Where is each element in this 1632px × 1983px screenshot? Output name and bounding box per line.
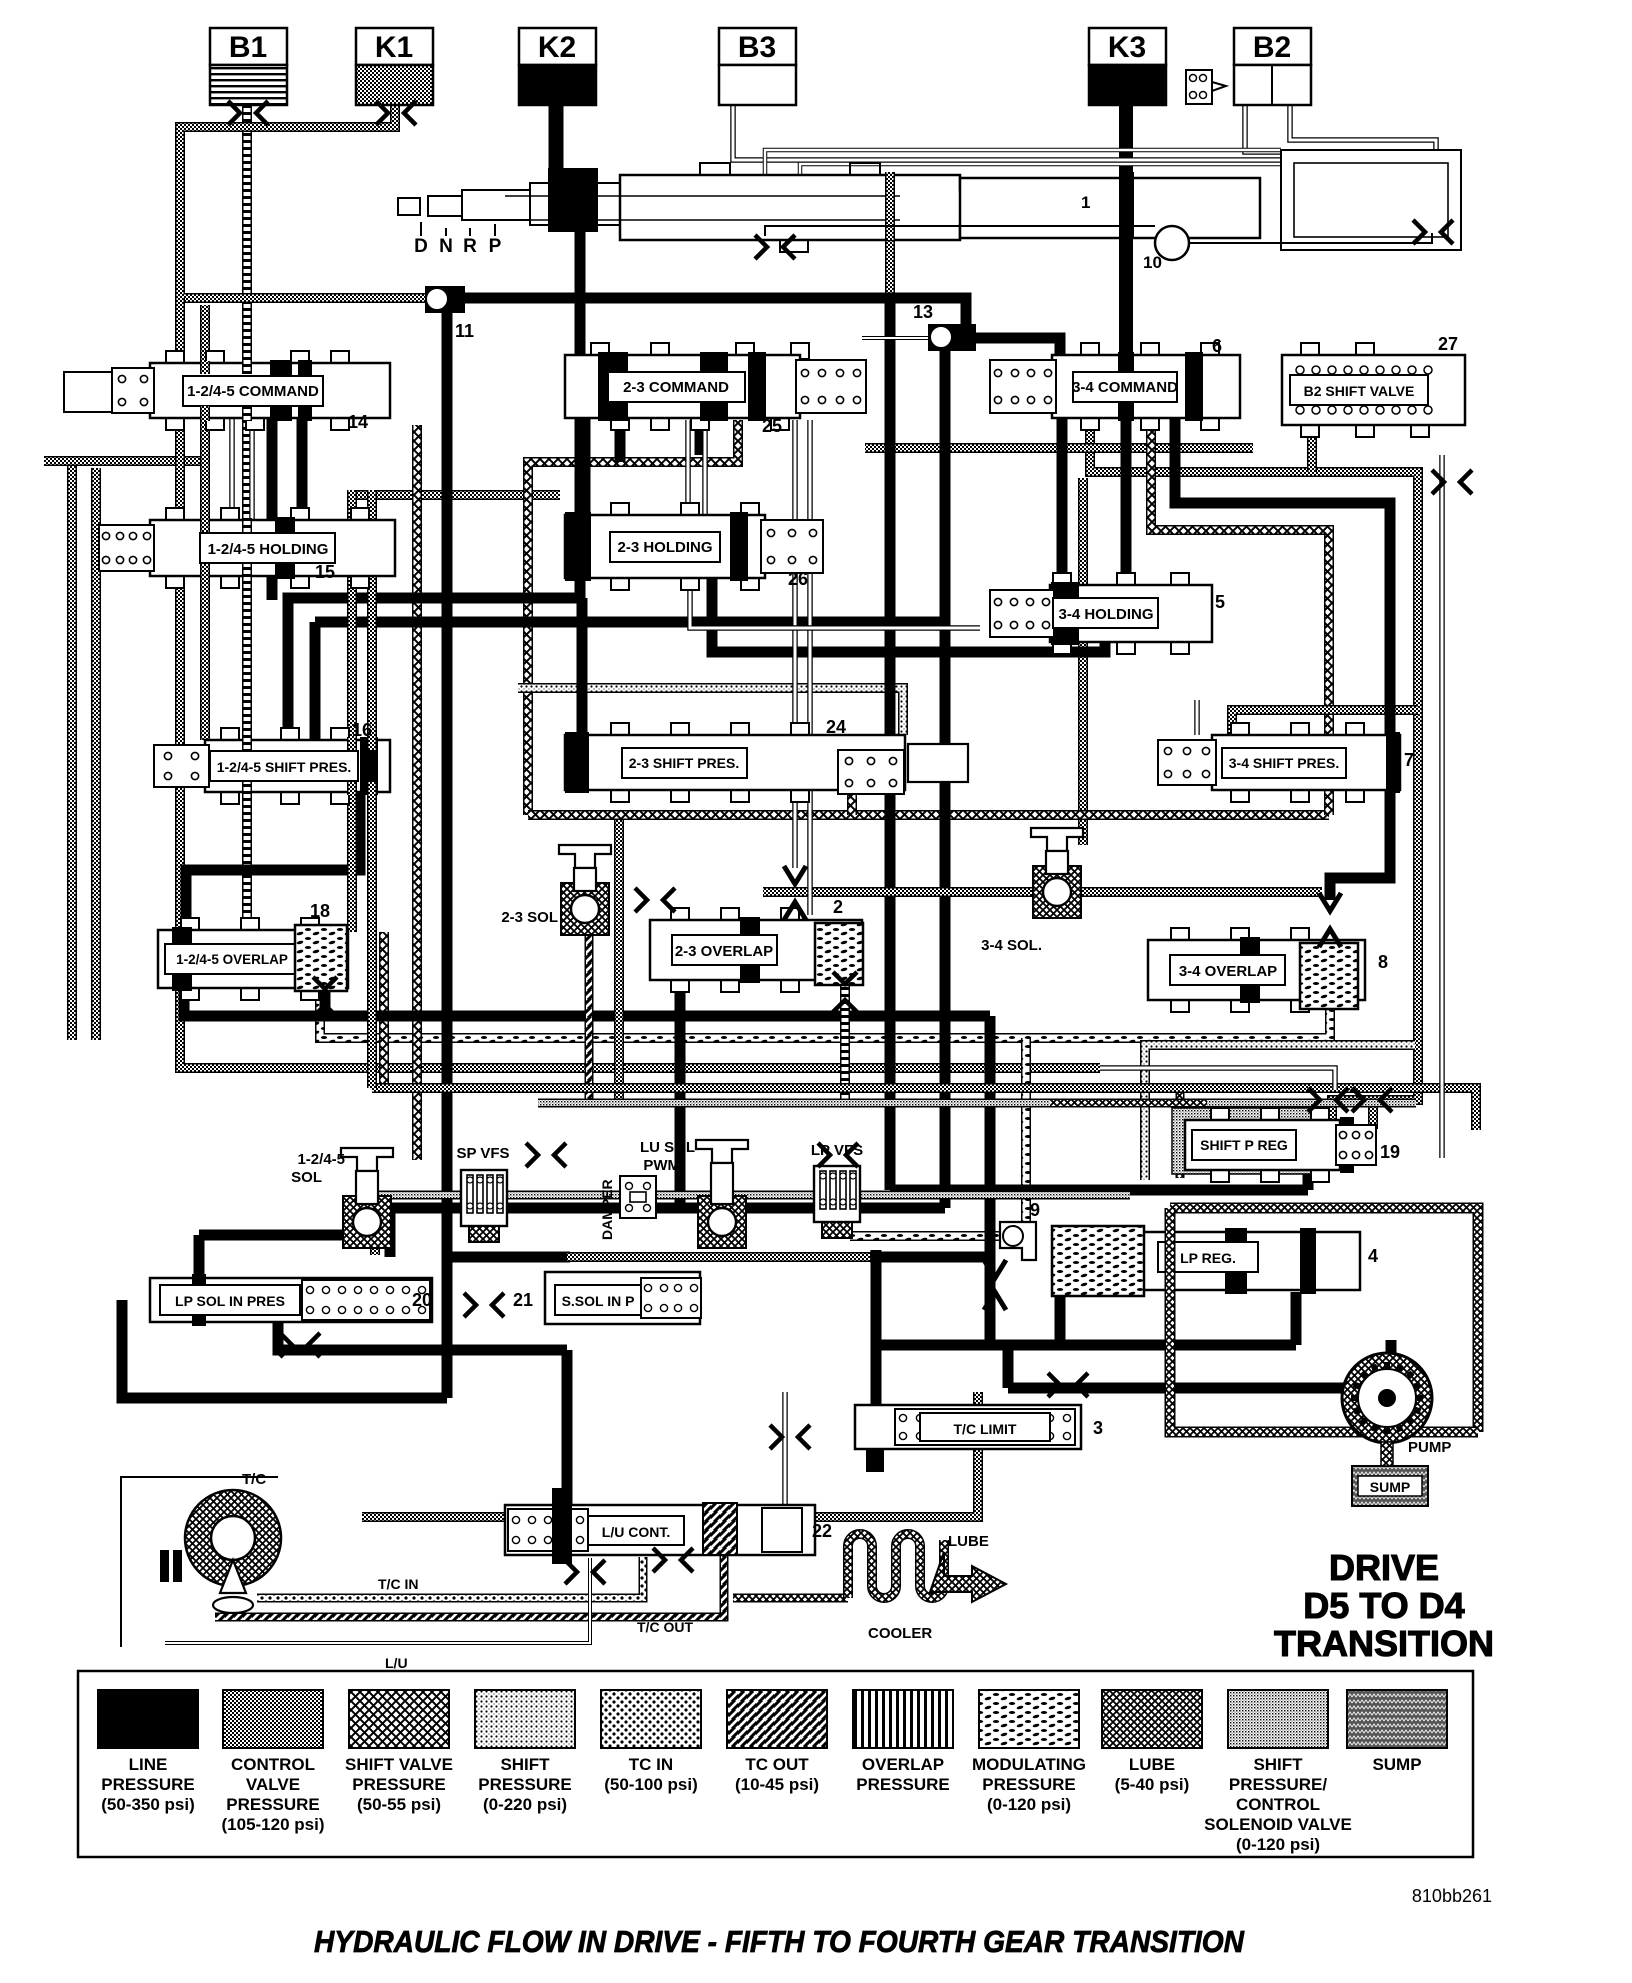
svg-text:MODULATING: MODULATING [972,1755,1086,1774]
svg-text:SHIFT: SHIFT [1253,1755,1303,1774]
wire shift-valve riser mid [412,425,422,1160]
solenoid SP VFS [461,1170,507,1242]
svg-text:K3: K3 [1108,31,1146,64]
svg-text:LINE: LINE [129,1755,168,1774]
line K3 drop [1119,103,1133,360]
wire ctrl 205 over valve 14 top [200,361,210,374]
clutch K2 [519,28,596,105]
svg-text:PWM: PWM [643,1157,680,1174]
node 13 [913,302,976,351]
solenoid 2-3 SOL [559,845,611,935]
svg-text:(50-55 psi): (50-55 psi) [357,1795,441,1814]
clutch B2 [1234,28,1311,105]
svg-text:HYDRAULIC FLOW IN DRIVE - FIFT: HYDRAULIC FLOW IN DRIVE - FIFTH TO FOURT… [314,1924,1245,1959]
orifice under B1 [228,101,268,125]
manual valve 1 body [398,163,1260,252]
arrow 2-3 overlap V down [784,866,806,884]
valve 3-4 holding 5 [990,573,1212,654]
line 2-3 holding feed [580,418,591,523]
B2 accumulator device [1186,70,1226,104]
svg-text:PRESSURE/: PRESSURE/ [1229,1775,1328,1794]
legend: SHIFT [475,1690,575,1814]
svg-text:T/C LIMIT: T/C LIMIT [954,1421,1017,1437]
svg-text:OVERLAP: OVERLAP [862,1755,944,1774]
svg-text:1-2/4-5: 1-2/4-5 [297,1151,345,1168]
title DRIVE D5 TO D4 TRANSITION [1274,1547,1494,1664]
line lp sol left deep drop [122,1300,447,1398]
pipe 1-2 command interlink B [249,418,255,520]
svg-text:PRESSURE: PRESSURE [982,1775,1076,1794]
valve s.sol in p 21 [513,1272,701,1324]
svg-text:(5-40 psi): (5-40 psi) [1115,1775,1190,1794]
wire ctrl 205 over valve 15 bot [200,564,210,579]
wire shift p reg frame right [1176,1085,1185,1178]
svg-text:SP VFS: SP VFS [456,1145,509,1162]
valve 24 spring box [838,750,904,794]
sump [1352,1442,1428,1506]
lube arrow [930,1533,1006,1602]
svg-text:18: 18 [310,901,330,921]
wire modulating band [320,982,1330,1038]
svg-text:2-3 COMMAND: 2-3 COMMAND [623,379,729,396]
svg-text:1-2/4-5 SHIFT PRES.: 1-2/4-5 SHIFT PRES. [217,759,352,775]
svg-text:22: 22 [812,1521,832,1541]
wire cooler feed [733,1594,848,1603]
wire T/C in line [257,1557,643,1598]
orifice 2-3 sol [635,888,675,912]
wire ctrl 352 over valve 16 top [347,737,357,750]
shift p reg housing blob [1172,1108,1322,1174]
valve 1-2/4-5 command 14 [112,351,390,430]
selector positions D N R P [414,222,502,257]
wire shift pressure header [518,688,903,735]
svg-text:6: 6 [1212,336,1222,356]
1-2/4-5 command left end box [64,372,112,412]
svg-text:1: 1 [1081,193,1090,212]
wire B1 ladder over valve 15 top [242,518,252,532]
orifice detent housing [1413,220,1453,244]
line node13 drop [940,350,951,1208]
line 1-2 command out B [297,418,308,523]
line manual valve to 2-3 command [575,230,586,360]
wire solenoid supply header [362,1392,978,1517]
line K3 through 3-4 command [1121,418,1132,588]
torque converter [121,1471,281,1647]
valve lp sol in pres 20 [150,1274,432,1326]
line 2-3 overlap left land drop [675,982,686,1208]
wire B1 ladder over valve 15 bot [242,564,252,579]
wire sp band [538,1099,1416,1108]
svg-text:S.SOL IN P: S.SOL IN P [562,1293,635,1309]
wire mid band sp low [376,1191,1130,1200]
pipe 2-3 interlink B [702,420,708,515]
svg-text:D5 TO D4: D5 TO D4 [1303,1585,1464,1626]
solenoid 3-4 SOL [1031,828,1083,918]
wire shift p reg top frame [1145,1045,1415,1180]
svg-text:21: 21 [513,1290,533,1310]
wire 3-4 sol drop [1078,478,1088,845]
pipe valve top out B [800,164,1281,180]
damper [599,1176,656,1240]
clutch B3 [719,28,796,105]
svg-text:5: 5 [1215,592,1225,612]
svg-text:(50-100 psi): (50-100 psi) [604,1775,698,1794]
valve 2-3 command 25 [565,343,866,430]
wire 3-4 command control loop [1090,420,1418,1121]
legend: LINE [98,1690,198,1814]
line 3-4 shift pres down [1330,788,1390,900]
legend box [78,1671,1473,1857]
svg-text:(50-350 psi): (50-350 psi) [101,1795,195,1814]
line shift p reg drop [985,1016,996,1257]
svg-text:3-4 SOL.: 3-4 SOL. [981,937,1042,954]
wire shift-valve press drop 2-3 [528,420,738,815]
svg-text:13: 13 [913,302,933,322]
svg-text:K1: K1 [375,31,413,64]
solenoid LP VFS [814,1166,860,1238]
check arrow below node9 up [984,1292,1006,1310]
line drop x315 [310,622,321,740]
wire B1 ladder over valve 14 top [242,361,252,374]
valve 24 right end [908,744,968,782]
svg-text:3-4 COMMAND: 3-4 COMMAND [1072,379,1178,396]
orifice sp vfs [526,1143,566,1167]
wire shift p reg inner frame [1060,1084,1180,1093]
svg-text:SOLENOID VALVE: SOLENOID VALVE [1204,1815,1352,1834]
wire modulating branch node 9 [1021,1038,1031,1230]
valve 2-3 overlap 2 [650,908,863,992]
wire control main long [180,298,1100,1068]
svg-text:T/C IN: T/C IN [378,1576,418,1592]
pipe band white cont [1100,1068,1335,1090]
line node13 header lower [390,1203,945,1214]
clutch B1 [210,28,287,105]
line shift p reg port drop [1303,1162,1314,1190]
valve 2-3 shift pres 24 [565,723,905,802]
wire mid ctrl riser A [347,490,357,932]
wire ctrl 372 over valve 16 bot [367,782,377,795]
pipe node13 sense [862,336,928,340]
svg-text:2-3 SOL: 2-3 SOL [501,909,558,926]
wire 3-4 command shift-valve drop [1151,420,1329,815]
svg-text:SHIFT: SHIFT [500,1755,550,1774]
wire 2-3 sol down [585,935,594,1100]
orifice 1-2 overlap bottom [313,977,337,1017]
pipe 1-2 command interlink A [229,418,235,520]
svg-text:2: 2 [833,897,843,917]
pipe 2-3 overlap pilots A [792,420,798,868]
line pump out header [1008,1383,1391,1394]
svg-text:LP REG.: LP REG. [1180,1250,1236,1266]
legend: SHIFT [1204,1690,1352,1854]
legend: TC OUT [727,1690,827,1794]
line node13 to 3-4 command [976,338,1060,358]
orifice lu cont B [653,1548,693,1572]
line y1190 header [890,1185,1308,1196]
svg-text:PRESSURE: PRESSURE [226,1795,320,1814]
svg-text:N: N [439,236,453,257]
pipe right margin loop [1439,455,1445,1158]
pipe 2-3 holding out [690,580,980,628]
wire B1 supply (overlap press.) vertical [242,100,252,938]
orifice lp sol left [280,1333,320,1357]
valve 1-2/4-5 overlap 18 [158,918,348,1000]
line pump out rise [1386,1340,1397,1388]
pump housing frame [1170,1208,1478,1432]
valve 3-4 shift pres 7 [1158,723,1400,802]
wire node9 modulating link [850,1231,1000,1241]
svg-text:LUBE: LUBE [948,1533,989,1550]
svg-text:CONTROL: CONTROL [1236,1795,1320,1814]
line 2-3 command port B [695,418,706,455]
wire ctrl 205 over valve 14 bot [200,406,210,421]
svg-text:2-3 HOLDING: 2-3 HOLDING [617,539,712,556]
wire ctrl 372 over valve 16 top [367,737,377,750]
svg-text:2-3 SHIFT PRES.: 2-3 SHIFT PRES. [629,755,739,771]
svg-text:B3: B3 [738,31,776,64]
svg-text:27: 27 [1438,334,1458,354]
arrow 2-3 overlap V up [784,902,806,920]
svg-text:K2: K2 [538,31,576,64]
line x890 long drop [885,298,896,1190]
svg-text:3-4 HOLDING: 3-4 HOLDING [1058,606,1153,623]
svg-text:VALVE: VALVE [246,1775,300,1794]
valve B2 shift valve 27 [1282,343,1465,437]
line lp reg feed [985,1257,996,1340]
pipe B3 drop [733,101,1281,160]
legend: LUBE [1102,1690,1202,1794]
manual valve 1 detent housing [1081,150,1461,250]
svg-text:B2 SHIFT VALVE: B2 SHIFT VALVE [1304,383,1415,399]
wire B1 ladder over valve 16 bot [242,782,252,795]
node 11 [425,286,474,341]
line 2-3 command port A [615,418,626,462]
wire manual valve R drop [885,172,895,293]
wire left margin control riser B [91,468,101,1040]
svg-text:P: P [489,236,502,257]
pipe 2-3 interlink A [685,420,691,515]
line lp vfs drop [871,1250,882,1345]
wire 2-3 command control stub [352,490,560,500]
line 2-3 shift pres right feed [940,622,951,740]
svg-text:3: 3 [1093,1418,1103,1438]
wire B2 shift valve lower header [865,443,1253,453]
wire shift-valve press long header [528,810,1329,820]
wire spring box feed [1368,1103,1378,1129]
svg-text:L/U CONT.: L/U CONT. [602,1524,670,1540]
legend: CONTROL [222,1690,325,1834]
svg-text:3-4 OVERLAP: 3-4 OVERLAP [1179,963,1277,980]
svg-text:R: R [463,236,477,257]
svg-text:B2: B2 [1253,31,1291,64]
wire overlap link band [763,887,1322,897]
wire T/C out line [215,1550,724,1617]
wire 3-4 shift pres top feed [1232,710,1418,735]
wire ctrl 205 over valve 15 top [200,518,210,532]
svg-text:PRESSURE: PRESSURE [856,1775,950,1794]
svg-text:COOLER: COOLER [868,1625,932,1642]
valve 3-4 overlap 8 [1148,928,1365,1012]
svg-text:8: 8 [1378,952,1388,972]
svg-text:T/C: T/C [242,1471,266,1488]
svg-text:PRESSURE: PRESSURE [478,1775,572,1794]
clutch K1 [356,28,433,105]
svg-text:TRANSITION: TRANSITION [1274,1623,1494,1664]
arrow 3-4 overlap V down [1319,893,1341,911]
legend: SUMP [1347,1690,1447,1774]
svg-text:15: 15 [315,562,335,582]
wire B2 shift valve control drop [1307,425,1317,472]
svg-text:11: 11 [455,321,474,341]
wire left margin control riser A [67,460,77,1040]
svg-text:D: D [414,236,428,257]
wire manual valve R drop overlay [885,174,895,240]
svg-text:7: 7 [1404,750,1414,770]
line node11 deep drop [442,1257,453,1398]
line lp sol bottom [278,1322,567,1350]
legend: OVERLAP [853,1690,953,1794]
valve 1-2/4-5 shift pres 16 [154,728,390,804]
wire B1 ladder over valve 16 top [242,737,252,750]
svg-text:TC OUT: TC OUT [745,1755,809,1774]
svg-text:CONTROL: CONTROL [231,1755,315,1774]
line tc limit drop [871,1345,882,1408]
orifice 2-3 overlap bottom [833,972,857,1012]
line 1-2 command out A [267,418,278,523]
pipe valve top out A [765,150,1281,180]
orifice under K1 [376,101,416,125]
svg-text:SOL: SOL [291,1169,322,1186]
orifice manual valve right [755,235,795,259]
line 2-3 shift pres left cap feed [577,598,588,737]
arrow 3-4 overlap V up [1319,929,1341,947]
valve l/u cont 22 [505,1488,832,1564]
svg-text:PRESSURE: PRESSURE [352,1775,446,1794]
pipe B2 left drop [1245,103,1420,222]
svg-text:9: 9 [1030,1200,1040,1220]
svg-text:PUMP: PUMP [1408,1439,1451,1456]
wire B1 ladder over valve 14 bot [242,406,252,421]
svg-text:14: 14 [348,412,368,432]
svg-text:TC IN: TC IN [629,1755,673,1774]
valve 3-4 command 6 [990,343,1240,430]
line 2-3 command down [288,418,580,740]
line drop x390 [385,1208,396,1257]
line supply right [870,1252,990,1263]
line node11 header [460,298,966,326]
orifice lp reg [1048,1373,1088,1397]
pipe B2 right drop [1290,103,1436,230]
wire mid ctrl riser B [367,490,377,1088]
svg-text:1-2/4-5 HOLDING: 1-2/4-5 HOLDING [208,541,329,558]
wire 2-3 overlap mod down [840,972,850,1100]
wire ctrl 352 over valve 16 bot [347,782,357,795]
svg-text:DRIVE: DRIVE [1329,1547,1439,1588]
svg-text:(10-45 psi): (10-45 psi) [735,1775,819,1794]
svg-text:SUMP: SUMP [1370,1479,1410,1495]
line mid header y622 [315,617,945,628]
svg-text:LUBE: LUBE [1129,1755,1175,1774]
valve lp reg 4 [1052,1226,1378,1296]
line node11 drop long [447,310,570,1257]
line lu cont drop [562,1350,573,1505]
svg-text:20: 20 [412,1290,432,1310]
wire solenoid rail [370,1205,380,1255]
wire 1-2/4-5 supply riser [200,305,210,740]
line low header 2 [876,1340,1296,1351]
wire lube inlet band [1050,1099,1207,1108]
line 2-3 holding bottom drop [712,578,1105,652]
orifice between 20 21 [464,1293,504,1317]
line 1-2 overlap feed [186,790,360,928]
pipe 3-4 shift pres pilots [1194,700,1200,735]
svg-text:SUMP: SUMP [1372,1755,1421,1774]
svg-text:1-2/4-5 COMMAND: 1-2/4-5 COMMAND [187,383,319,400]
wire ctrl band mid [372,1088,1476,1130]
svg-text:(105-120 psi): (105-120 psi) [222,1815,325,1834]
line lp reg ports [1055,1292,1066,1345]
svg-text:19: 19 [1380,1142,1400,1162]
legend: TC IN [601,1690,701,1794]
svg-text:(0-220 psi): (0-220 psi) [483,1795,567,1814]
legend: SHIFT VALVE [345,1690,453,1814]
orifice shift p reg A [1308,1088,1348,1112]
svg-text:4: 4 [1368,1246,1378,1266]
B2 shift valve hole rows [1296,366,1432,414]
svg-text:24: 24 [826,717,846,737]
line lp sol top link [199,1230,390,1241]
line overlap bottom header [184,982,990,1016]
svg-text:1-2/4-5 OVERLAP: 1-2/4-5 OVERLAP [176,952,288,967]
line lp sol cap drop [194,1235,205,1278]
svg-text:10: 10 [1143,253,1162,272]
line 1-2 holding out [267,574,278,600]
svg-text:T/C OUT: T/C OUT [637,1619,693,1635]
pipe L/U line [165,1558,590,1643]
valve t/c limit 3 [855,1405,1103,1472]
orifice lube low [818,1143,858,1167]
node 9 bypass valve [1000,1200,1040,1260]
wire K1 supply loop [180,100,425,298]
wire left margin control header [44,456,205,466]
svg-text:B1: B1 [229,31,267,64]
svg-text:L/U: L/U [385,1655,408,1671]
clutch K3 [1089,28,1166,105]
svg-text:2-3 OVERLAP: 2-3 OVERLAP [675,943,773,960]
legend: MODULATING [972,1690,1086,1814]
svg-text:SHIFT P REG: SHIFT P REG [1200,1137,1288,1153]
pump [1342,1353,1451,1456]
solenoid LU SOL PWM [696,1140,748,1248]
line 3-4 command right loop [1175,418,1390,737]
svg-text:LU SOL: LU SOL [640,1139,695,1156]
line K2 drop [549,103,564,170]
svg-text:(0-120 psi): (0-120 psi) [1236,1835,1320,1854]
svg-text:26: 26 [788,569,808,589]
check ball 10 [765,226,1432,272]
orifice shift p reg B [1352,1088,1392,1112]
line x1008 link [1003,1340,1014,1388]
pipe 2-3 overlap pilots B [807,420,813,915]
orifice tc limit [770,1425,810,1449]
cooler coil [848,1534,944,1642]
svg-text:SHIFT VALVE: SHIFT VALVE [345,1755,453,1774]
pipe 10 sense line [700,226,1150,230]
orifice near B2 shift valve [1432,470,1472,494]
valve 1-2/4-5 holding 15 [99,508,395,588]
line lp reg right drop [1291,1292,1302,1345]
orifice lu cont A [565,1560,605,1584]
